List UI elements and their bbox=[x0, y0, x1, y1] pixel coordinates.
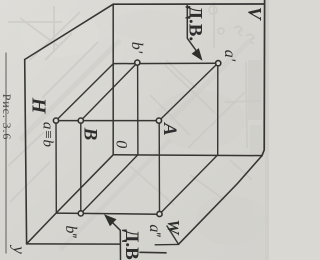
b''-a'' line bbox=[56, 213, 159, 214]
svg-text:y: y bbox=[9, 244, 28, 254]
a' down bbox=[217, 63, 219, 155]
point b' bbox=[135, 60, 140, 65]
diag to b'' bbox=[81, 155, 138, 214]
svg-text:V: V bbox=[244, 7, 265, 21]
point b'' bbox=[78, 211, 83, 216]
H plane top diagonal bbox=[25, 4, 114, 59]
bottom DV bracket bbox=[112, 223, 120, 260]
b'-a' line bbox=[113, 62, 218, 64]
svg-text:Рис. 3.6: Рис. 3.6 bbox=[0, 94, 14, 141]
B to b' diag bbox=[81, 63, 137, 121]
a'' diag up bbox=[160, 155, 218, 214]
B down to b'' bbox=[80, 121, 82, 214]
top DV bracket bbox=[187, 4, 196, 50]
bottom arrowhead bbox=[104, 214, 117, 226]
point A bbox=[156, 118, 161, 123]
point circles bbox=[53, 60, 220, 217]
svg-text:a'': a'' bbox=[146, 224, 163, 237]
svg-text:a≡b: a≡b bbox=[39, 122, 55, 148]
svg-text:W: W bbox=[164, 219, 183, 236]
point a≡b bbox=[53, 118, 58, 123]
svg-text:b': b' bbox=[128, 42, 145, 54]
svg-text:H: H bbox=[27, 97, 49, 115]
svg-text:b'': b'' bbox=[62, 225, 79, 238]
x-axis (vertical) bbox=[112, 4, 114, 155]
top arrowhead bbox=[192, 48, 203, 61]
y axis bbox=[27, 243, 120, 245]
frame border right (orig top edge) bbox=[262, 0, 265, 156]
W plane tip left edge bbox=[167, 226, 179, 244]
point a' bbox=[216, 61, 221, 66]
svg-text:a': a' bbox=[221, 50, 238, 62]
svg-text:A: A bbox=[159, 122, 180, 136]
b' down bbox=[137, 63, 139, 155]
svg-text:Д.В: Д.В bbox=[121, 229, 142, 260]
arrowheads bbox=[104, 48, 203, 226]
A down to a'' bbox=[158, 121, 160, 214]
H plane right depth edge bbox=[27, 155, 114, 244]
W plane tip bottom bbox=[155, 243, 178, 245]
svg-text:B: B bbox=[80, 127, 101, 141]
W plane outer edge bbox=[179, 156, 263, 245]
a=b to axis diag bbox=[56, 64, 113, 121]
svg-text:0: 0 bbox=[113, 140, 130, 148]
frame border top (orig left edge) bbox=[113, 3, 264, 5]
fold line V/W (horizontal) bbox=[113, 154, 262, 157]
H plane left edge bbox=[25, 60, 27, 244]
a=b,B,A line bbox=[56, 120, 159, 122]
point B bbox=[78, 118, 83, 123]
A to a' diag bbox=[159, 63, 218, 120]
point a'' bbox=[157, 211, 162, 216]
page/frame partial border (orig bottom edge) bbox=[5, 53, 7, 253]
svg-text:Д.В.: Д.В. bbox=[185, 6, 206, 41]
ghost bleed-through marks bbox=[8, 2, 261, 205]
frame fragment right bbox=[140, 251, 166, 254]
a=b down bbox=[55, 121, 57, 213]
